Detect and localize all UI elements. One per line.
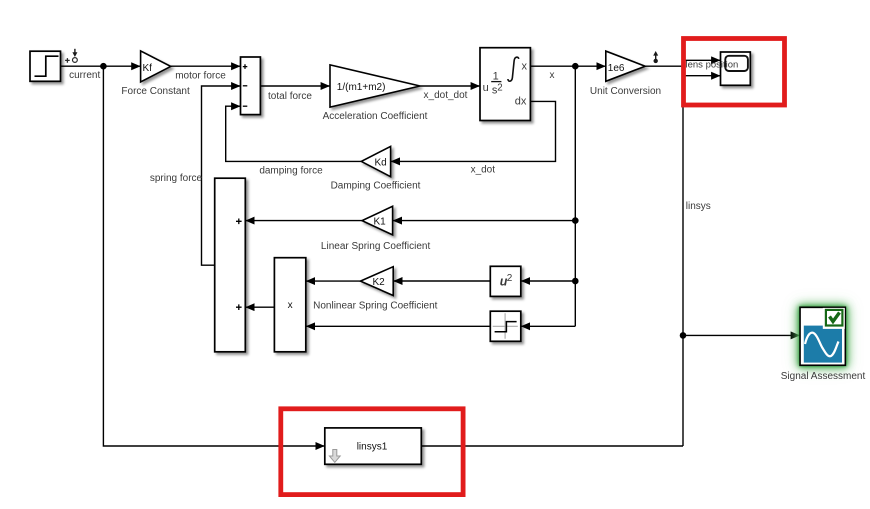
- wire: to scope input 1: [683, 60, 721, 66]
- svg-text:linsys1: linsys1: [357, 442, 388, 453]
- wire: spring force to sum: [202, 86, 241, 265]
- gain Acceleration Coefficient: [330, 65, 420, 107]
- step source block: [30, 51, 61, 81]
- integrator block 1/s^2: [480, 48, 530, 121]
- svg-text:motor force: motor force: [175, 71, 226, 82]
- svg-text:u: u: [483, 82, 489, 94]
- wire: tap to K1: [393, 220, 576, 222]
- gain K2 Nonlinear Spring Coefficient: [360, 267, 393, 296]
- svg-text:Unit Conversion: Unit Conversion: [590, 86, 661, 97]
- svg-text:x: x: [288, 300, 293, 311]
- svg-text:x_dot: x_dot: [471, 165, 496, 176]
- gain Kf: [141, 51, 171, 82]
- svg-text:x: x: [522, 61, 528, 73]
- linsys1 subsystem block: [325, 428, 422, 464]
- svg-text:linsys: linsys: [686, 201, 711, 212]
- output measurement marker (up arrow with dot): [653, 51, 658, 63]
- svg-text:damping force: damping force: [259, 165, 323, 176]
- svg-text:Acceleration Coefficient: Acceleration Coefficient: [323, 111, 428, 122]
- wire: x feedback to saturation: [521, 325, 576, 327]
- wire: tap to u^2: [521, 280, 576, 282]
- signal assessment block: [800, 307, 845, 365]
- saturation block: [490, 311, 521, 341]
- svg-text:Signal Assessment: Signal Assessment: [781, 371, 866, 382]
- wire: total force: [260, 85, 330, 87]
- wire: u^2 to K2: [393, 280, 490, 282]
- svg-text:1e6: 1e6: [608, 63, 625, 74]
- wire: saturation to product block: [306, 325, 491, 327]
- svg-text:total force: total force: [268, 91, 312, 102]
- gain K1 Linear Spring Coefficient: [362, 206, 393, 235]
- svg-text:K1: K1: [374, 216, 387, 227]
- svg-text:current: current: [69, 70, 100, 81]
- wire: linsys1 output: [421, 445, 683, 447]
- svg-text:Nonlinear Spring Coefficient: Nonlinear Spring Coefficient: [313, 301, 438, 312]
- svg-text:Kd: Kd: [375, 157, 387, 168]
- input perturbation marker (+ circle with down arrow): [65, 49, 77, 63]
- wire: K1 to spring adder: [245, 220, 362, 222]
- wire: x_dot_dot: [420, 85, 480, 87]
- junction node: x wire: [572, 63, 579, 70]
- junction node: signal assessment tap: [680, 332, 687, 339]
- wire: linsys vertical to scope input 2: [683, 76, 721, 446]
- junction node: u^2 tap: [572, 278, 579, 285]
- gain 1e6 Unit Conversion: [606, 51, 645, 81]
- svg-text:K2: K2: [373, 277, 386, 288]
- sum block (force sum): [241, 57, 261, 115]
- svg-text:1/(m1+m2): 1/(m1+m2): [337, 82, 386, 93]
- svg-text:lens position: lens position: [686, 59, 739, 70]
- junction node: current branch: [100, 63, 107, 70]
- wire: motor force: [171, 65, 241, 67]
- scope block (lens position scope): [721, 52, 751, 85]
- svg-text:2: 2: [507, 273, 513, 284]
- wire: product to spring adder: [245, 306, 274, 308]
- svg-text:x: x: [550, 70, 555, 81]
- wire: dx to Kd (x_dot): [391, 101, 556, 161]
- gain Kd Damping Coefficient: [361, 146, 390, 176]
- wire: step output (current) to Kf: [61, 65, 141, 67]
- svg-text:Kf: Kf: [143, 63, 153, 74]
- svg-text:1: 1: [493, 71, 499, 83]
- math block u^2: [490, 266, 521, 296]
- svg-text:spring force: spring force: [150, 173, 203, 184]
- product block x: [274, 258, 305, 352]
- spring force adder: [215, 178, 246, 352]
- wire: K2 to product block: [306, 280, 361, 282]
- wire: unit conversion to scope area: [645, 65, 684, 67]
- wire: current feedback from junction down to linsys1: [103, 66, 324, 446]
- wire: damping force to sum: [226, 106, 362, 161]
- red highlight box 2 (linsys1): [281, 409, 463, 495]
- wire: to signal assessment: [683, 334, 800, 336]
- wire: x feedback vertical: [574, 66, 576, 326]
- svg-text:x_dot_dot: x_dot_dot: [424, 90, 468, 101]
- wire: x output to unit conversion: [530, 65, 605, 67]
- red highlight box 1 (scope): [684, 39, 785, 106]
- svg-text:2: 2: [497, 82, 502, 93]
- junction node: K1 tap: [572, 217, 579, 224]
- svg-text:Damping Coefficient: Damping Coefficient: [331, 181, 421, 192]
- svg-text:Force Constant: Force Constant: [121, 86, 190, 97]
- svg-text:dx: dx: [515, 96, 527, 108]
- svg-text:Linear Spring Coefficient: Linear Spring Coefficient: [321, 241, 431, 252]
